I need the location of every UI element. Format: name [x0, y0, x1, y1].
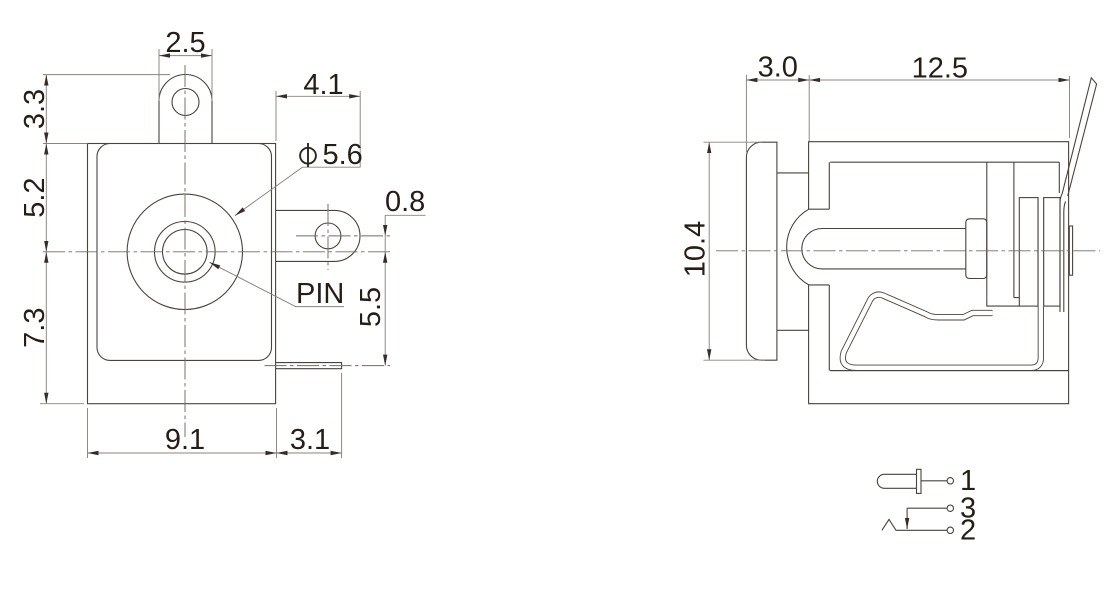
dimension 7.3: [45, 252, 47, 404]
label dia 5.6 text: [300, 139, 363, 171]
side view entry opening: [787, 209, 830, 285]
pin 2 terminal circle: [947, 527, 953, 533]
washer plate B: [1044, 198, 1060, 307]
centerline vertical front view: [184, 65, 186, 437]
dimension 12.5: [809, 79, 1069, 81]
svg-text:3.0: 3.0: [758, 52, 798, 84]
pin 3 wire: [907, 507, 947, 509]
svg-text:7.3: 7.3: [19, 308, 51, 348]
svg-text:5.5: 5.5: [355, 287, 387, 327]
center pin collar: [966, 219, 987, 279]
dimension 9.1: [88, 452, 277, 454]
svg-text:12.5: 12.5: [912, 53, 968, 85]
centerline side view: [716, 250, 1100, 252]
svg-text:2.5: 2.5: [165, 27, 205, 59]
pin collar circle: [155, 222, 216, 283]
centerline horizontal front view: [43, 251, 390, 253]
dimension 0.8: [385, 214, 425, 216]
cavity floor line over spring: [830, 370, 1068, 372]
side view washer neck top: [777, 172, 809, 174]
side view washer neck bottom: [777, 329, 809, 331]
side contact spring: [843, 198, 1041, 368]
side view body outline: [809, 142, 1069, 404]
plastic wall: [986, 162, 988, 297]
svg-text:4.1: 4.1: [303, 69, 343, 101]
label PIN leader: [210, 262, 297, 307]
dimension 3.0 extension lines: [745, 75, 747, 152]
side view cavity left upper: [828, 162, 830, 209]
dimension 7.3 extension line: [40, 403, 84, 405]
side view cavity bottom: [830, 370, 1068, 372]
svg-text:3.1: 3.1: [290, 424, 330, 456]
label dia 5.6 leader: [235, 167, 302, 215]
release lever: [1060, 78, 1097, 312]
svg-text:0.8: 0.8: [385, 186, 425, 218]
svg-text:5.2: 5.2: [19, 177, 51, 217]
dimension 2.5: [159, 55, 212, 57]
svg-text:3.3: 3.3: [19, 89, 51, 129]
dimension 5.2: [45, 144, 47, 252]
centerline side tab hole horizontal: [296, 235, 390, 237]
svg-text:10.4: 10.4: [680, 221, 712, 277]
centerline bottom lug: [265, 365, 391, 367]
dimension 3.1: [277, 452, 342, 454]
schematic washer bar: [917, 469, 922, 493]
side tab hole: [315, 223, 341, 249]
dimension 3.3: [45, 75, 47, 144]
pin terminal foot: [987, 298, 1020, 307]
dimension 3.3 extension lines: [43, 74, 170, 76]
washer plate A: [1019, 198, 1038, 307]
svg-text:PIN: PIN: [296, 278, 344, 310]
side view flange: [746, 142, 777, 360]
pin 1 terminal circle: [947, 478, 953, 484]
dimension 5.5: [384, 252, 386, 366]
side view cavity top: [830, 161, 1059, 163]
svg-text:5.6: 5.6: [323, 139, 363, 171]
pin 1 wire: [921, 480, 947, 482]
svg-text:9.1: 9.1: [165, 424, 205, 456]
front body outline: [88, 144, 276, 404]
switch connector line: [906, 508, 908, 529]
barrel opening circle (dia 5.6): [127, 194, 242, 309]
svg-text:2: 2: [960, 515, 976, 547]
top tab hole: [172, 89, 199, 116]
front inner face rounded outline: [97, 144, 272, 361]
pin 3 terminal circle: [947, 505, 953, 511]
dimension 4.1: [276, 95, 360, 97]
center pin circle: [163, 230, 208, 275]
dimension 3.1 extension line: [341, 373, 343, 458]
side view cavity left lower: [828, 285, 830, 371]
schematic center pin: [877, 474, 916, 488]
side mounting tab: [276, 210, 360, 261]
dimension 2.5 extension lines: [158, 49, 160, 101]
side view cavity right: [1058, 162, 1060, 193]
center pin side view: [802, 228, 966, 268]
top mounting tab: [159, 75, 212, 144]
dimension 4.1 extension lines: [275, 91, 277, 141]
dimension 10.4 extension lines: [704, 141, 763, 143]
centerline side tab hole vertical: [327, 204, 329, 270]
dimension 10.4: [708, 142, 710, 360]
right contact plate: [1069, 226, 1072, 275]
dimension 9.1 extension lines: [87, 408, 89, 458]
bottom solder lug: [276, 363, 342, 369]
dimension 3.0: [746, 79, 809, 81]
dimension 12.5 extension line: [1069, 76, 1071, 138]
pin 2 wire with spring contact: [882, 519, 947, 530]
